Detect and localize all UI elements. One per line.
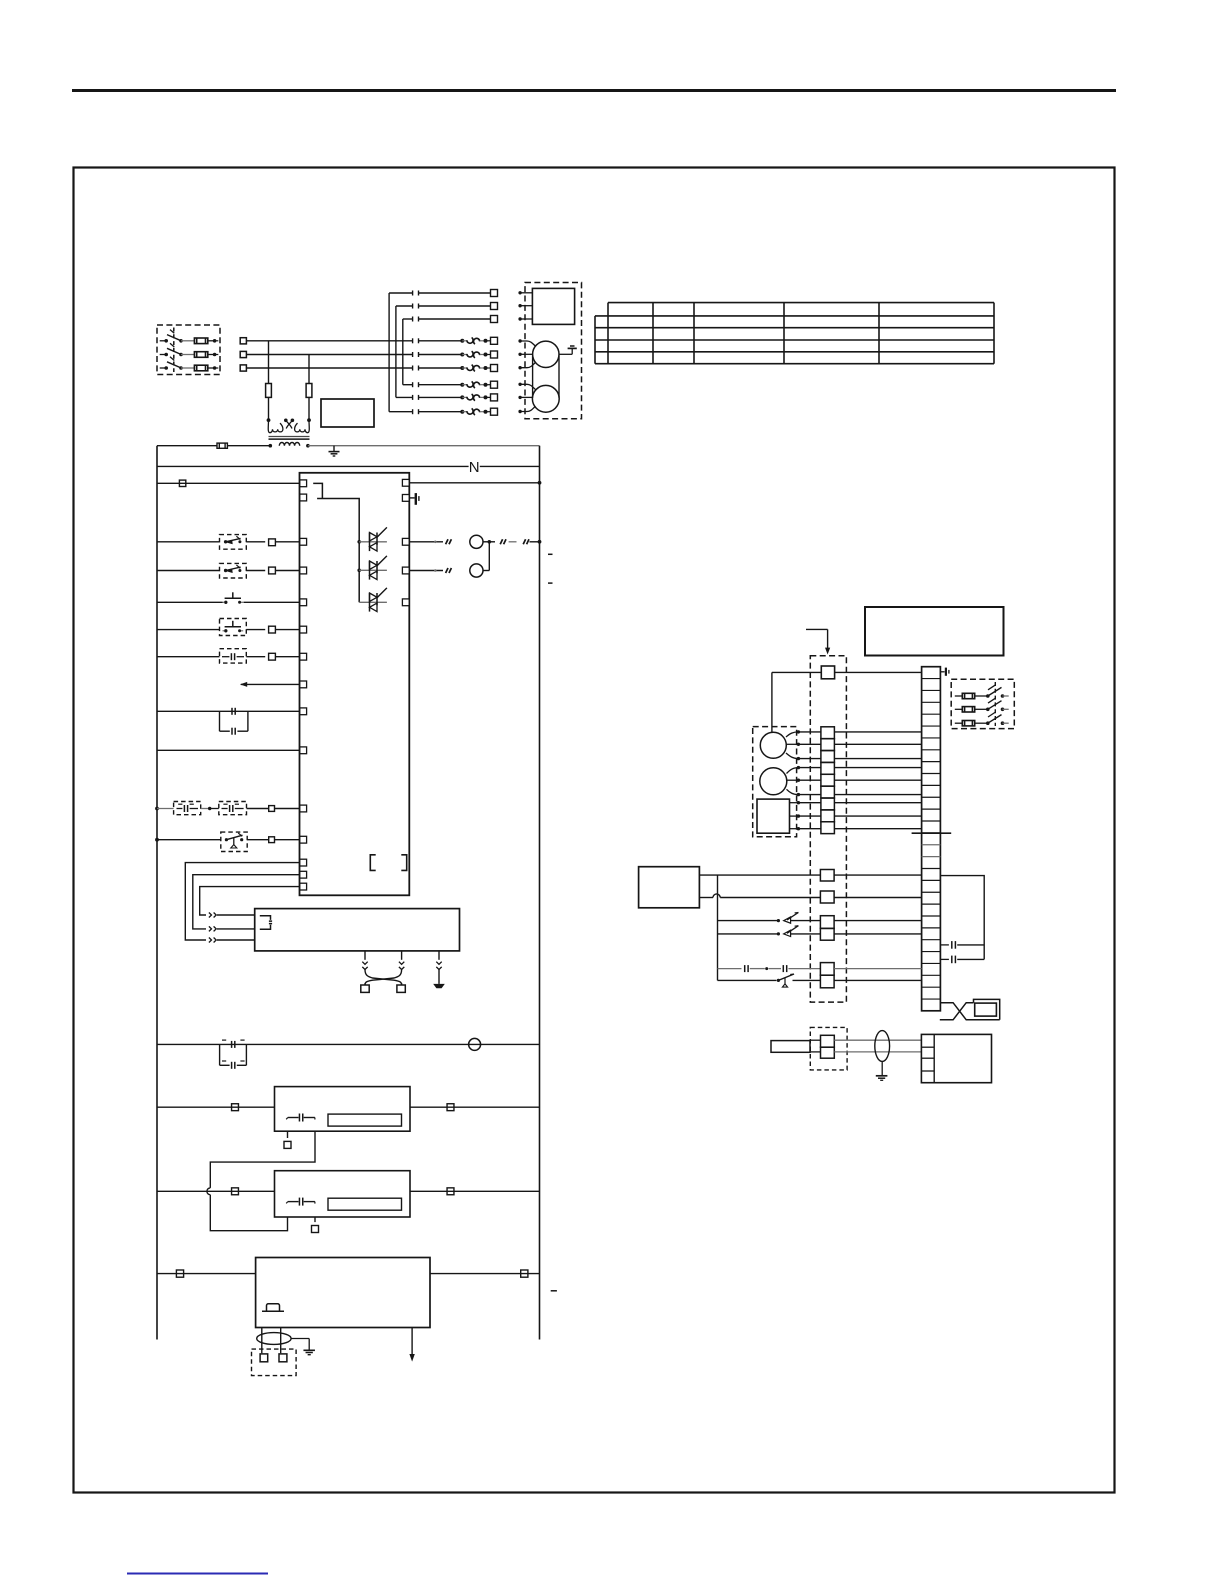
parallel contact pair row9	[157, 708, 300, 735]
power module right wire+terminal	[430, 1270, 540, 1277]
relay/timer module 1	[275, 1087, 411, 1132]
lamp circuit row with parallel contacts	[157, 1040, 540, 1069]
control transformer T1	[268, 419, 309, 446]
page top rule	[72, 89, 1116, 92]
outdoor motor lead 7	[790, 801, 922, 804]
outdoor control box	[639, 867, 700, 908]
outdoor motor lead 9	[790, 827, 922, 830]
outdoor breaker pole 1	[955, 685, 1009, 699]
display/sensor board outline	[255, 909, 460, 951]
coil thermostat switch (dashed) row4	[157, 563, 300, 578]
indoor-outdoor wire row 7	[403, 381, 498, 388]
display board drop 2	[365, 951, 404, 985]
service plug crossed wires	[940, 1003, 1000, 1020]
signal arrow row8	[240, 682, 300, 687]
strip chassis mark	[940, 668, 949, 676]
fan motor M2	[532, 385, 559, 412]
row1 wire from left rail	[157, 480, 300, 486]
indoor-outdoor wire row 5	[246, 351, 497, 358]
boxed contact (dashed) row7	[157, 649, 300, 663]
outdoor breaker pole 3	[955, 712, 1009, 726]
PCB right edge terminals	[402, 479, 409, 605]
room thermostat switch (dashed) row3	[157, 535, 300, 550]
svg-text:N: N	[469, 459, 480, 476]
fan block stub 3	[518, 317, 532, 320]
fan motor stub at y=411.5	[518, 406, 535, 413]
left supply rail	[156, 446, 158, 1340]
bundle chevrons at y=940.0	[209, 938, 255, 943]
PCB jumper hook (top-left)	[313, 483, 359, 602]
relay2 right wire+terminal	[410, 1188, 540, 1195]
outdoor breaker pole 2	[955, 698, 1009, 712]
outdoor connector column (dashed)	[810, 656, 846, 1002]
internal fuse symbol	[262, 1304, 284, 1312]
relay1-to-relay2 link wire	[207, 1131, 315, 1231]
display sensor terminals	[361, 983, 406, 992]
service plug body	[974, 999, 1000, 1019]
indoor-outdoor wire row 9	[389, 408, 497, 415]
bundle chevrons at y=915.0	[209, 913, 255, 918]
control transformer primary leads + fuses	[266, 341, 312, 422]
interconnect bundle verticals	[389, 293, 403, 412]
mains cord wires + ferrite ring	[257, 1328, 291, 1354]
indoor-outdoor wire row 8	[396, 394, 498, 401]
relay/timer module 2	[275, 1171, 411, 1217]
remote sensor wand	[771, 1041, 810, 1053]
relay1 right wire+terminal	[410, 1104, 540, 1111]
page border frame	[74, 168, 1115, 1493]
triac 1	[359, 527, 387, 551]
capacitor loop top wire	[940, 876, 984, 960]
power supply module	[256, 1258, 430, 1328]
motor connector cells	[821, 727, 835, 834]
outdoor sensor row3	[718, 912, 922, 928]
PCB left edge terminals	[300, 480, 307, 890]
fan capacitor block	[532, 288, 574, 324]
display board input capacitor glyph	[260, 916, 272, 929]
capacitor loop contact row2	[940, 956, 984, 964]
fan block stub 2	[518, 304, 532, 307]
remote shield earth	[876, 1061, 888, 1080]
outdoor motor lead 8	[790, 814, 922, 817]
PCB-to-display bundle wires	[185, 863, 299, 940]
remote cable ferrite	[875, 1031, 890, 1062]
low-voltage bus (transformer secondary)	[157, 443, 540, 448]
power module output arrow	[409, 1328, 414, 1362]
momentary pushbutton row5	[157, 592, 300, 604]
transformer label box (blank)	[321, 399, 374, 427]
indicator lamp	[469, 1038, 481, 1050]
supply terminals L-N-E	[240, 338, 246, 344]
bus earth ground	[329, 446, 340, 456]
fan motor stub at y=397.4	[518, 396, 532, 399]
boxed pushbutton (dashed) row6	[157, 619, 300, 636]
triac feed junction dots	[357, 540, 361, 572]
indoor control PCB outline	[300, 473, 410, 896]
breaker pole 2: switch + fuse	[160, 343, 219, 357]
bundle chevrons at y=928.9	[209, 926, 255, 931]
display unit box	[921, 1034, 991, 1082]
breaker pole 3: switch + fuse	[160, 357, 219, 371]
display board drop 1	[362, 951, 401, 985]
N neutral line	[157, 459, 540, 476]
fan motor output row C	[409, 535, 541, 548]
outdoor pressure row5	[718, 963, 922, 976]
triac 2	[359, 556, 387, 580]
outdoor control row2 with hop	[699, 891, 921, 903]
fan motor stub at y=367.7	[518, 362, 535, 369]
outdoor motor lead 3	[786, 753, 922, 760]
remote cable wires	[810, 1040, 921, 1052]
leader arrow to outdoor connector	[806, 629, 830, 654]
chassis stub row B	[409, 493, 419, 505]
indoor-outdoor wire row 4	[246, 337, 497, 344]
outdoor sensor row4	[718, 926, 922, 941]
fan unit chassis ground	[559, 346, 577, 354]
fan motor output row D	[409, 542, 489, 577]
fan motor stub at y=341.0	[518, 339, 535, 346]
redacted label dash 3	[551, 1290, 557, 1292]
outdoor motor lead 6	[787, 789, 922, 796]
display board earth drop	[433, 951, 445, 988]
breaker pole 1: switch + fuse	[160, 330, 219, 344]
line output row A to right rail	[409, 481, 541, 485]
outdoor motor M4	[760, 768, 787, 795]
indoor-outdoor wire row 1	[389, 290, 497, 297]
remote connector (dashed box)	[810, 1027, 847, 1070]
indoor-outdoor wire row 6	[246, 365, 497, 372]
capacitor loop contact row1	[940, 941, 984, 949]
redacted label dash 1	[548, 553, 553, 555]
compressor terminal box	[757, 799, 790, 833]
row11: two boxed contacts in series	[155, 802, 300, 815]
PCB bottom bracket marks	[370, 855, 406, 871]
fan motor stub at y=384.3	[518, 383, 535, 390]
fan motor M1	[533, 341, 559, 367]
outdoor motor M3	[760, 732, 786, 758]
relay2 bottom stub terminal	[312, 1217, 319, 1233]
outdoor motor lead 4	[787, 766, 922, 774]
relay1 left wire+terminal	[157, 1104, 275, 1111]
outdoor breaker box (dashed)	[951, 679, 1014, 728]
indoor fan unit enclosure (dashed)	[525, 283, 582, 419]
cord shield earth	[291, 1339, 315, 1355]
outdoor motor lead 2	[786, 743, 921, 746]
outdoor protector row6	[718, 974, 922, 988]
power module left wire+terminal	[157, 1270, 256, 1277]
main breaker / fuse block (dashed)	[157, 325, 220, 375]
mains plug terminals (dashed box)	[252, 1349, 297, 1376]
row12: float switch (dashed)	[155, 832, 300, 851]
redacted label dash 2	[548, 582, 553, 584]
outdoor feed connector	[821, 666, 834, 679]
outdoor feed wire	[772, 672, 922, 732]
indoor-outdoor wire row 2	[396, 303, 498, 310]
footer blue link line	[127, 1573, 268, 1575]
strip extension line	[912, 832, 952, 834]
fan motor stub at y=354.3	[518, 353, 532, 356]
fan block stub 1	[518, 291, 532, 294]
indoor-outdoor wire row 3	[403, 316, 498, 323]
row10 wire	[157, 749, 300, 751]
parts table	[595, 303, 994, 364]
outdoor terminal strip	[922, 667, 941, 1011]
relay2 left wire+terminal	[157, 1188, 275, 1195]
triac 3	[359, 588, 387, 612]
relay1 bottom stub terminal	[284, 1131, 291, 1148]
outdoor control row1	[699, 870, 921, 882]
fan motor tangent links	[533, 356, 559, 398]
outdoor unit label box (blank)	[865, 607, 1004, 656]
outdoor motor lead 5	[787, 779, 922, 782]
compressor unit enclosure (dashed)	[753, 727, 797, 837]
outdoor motor lead 1	[786, 730, 922, 737]
right return rail	[539, 446, 541, 1340]
outdoor sensor bus vertical	[717, 875, 719, 980]
